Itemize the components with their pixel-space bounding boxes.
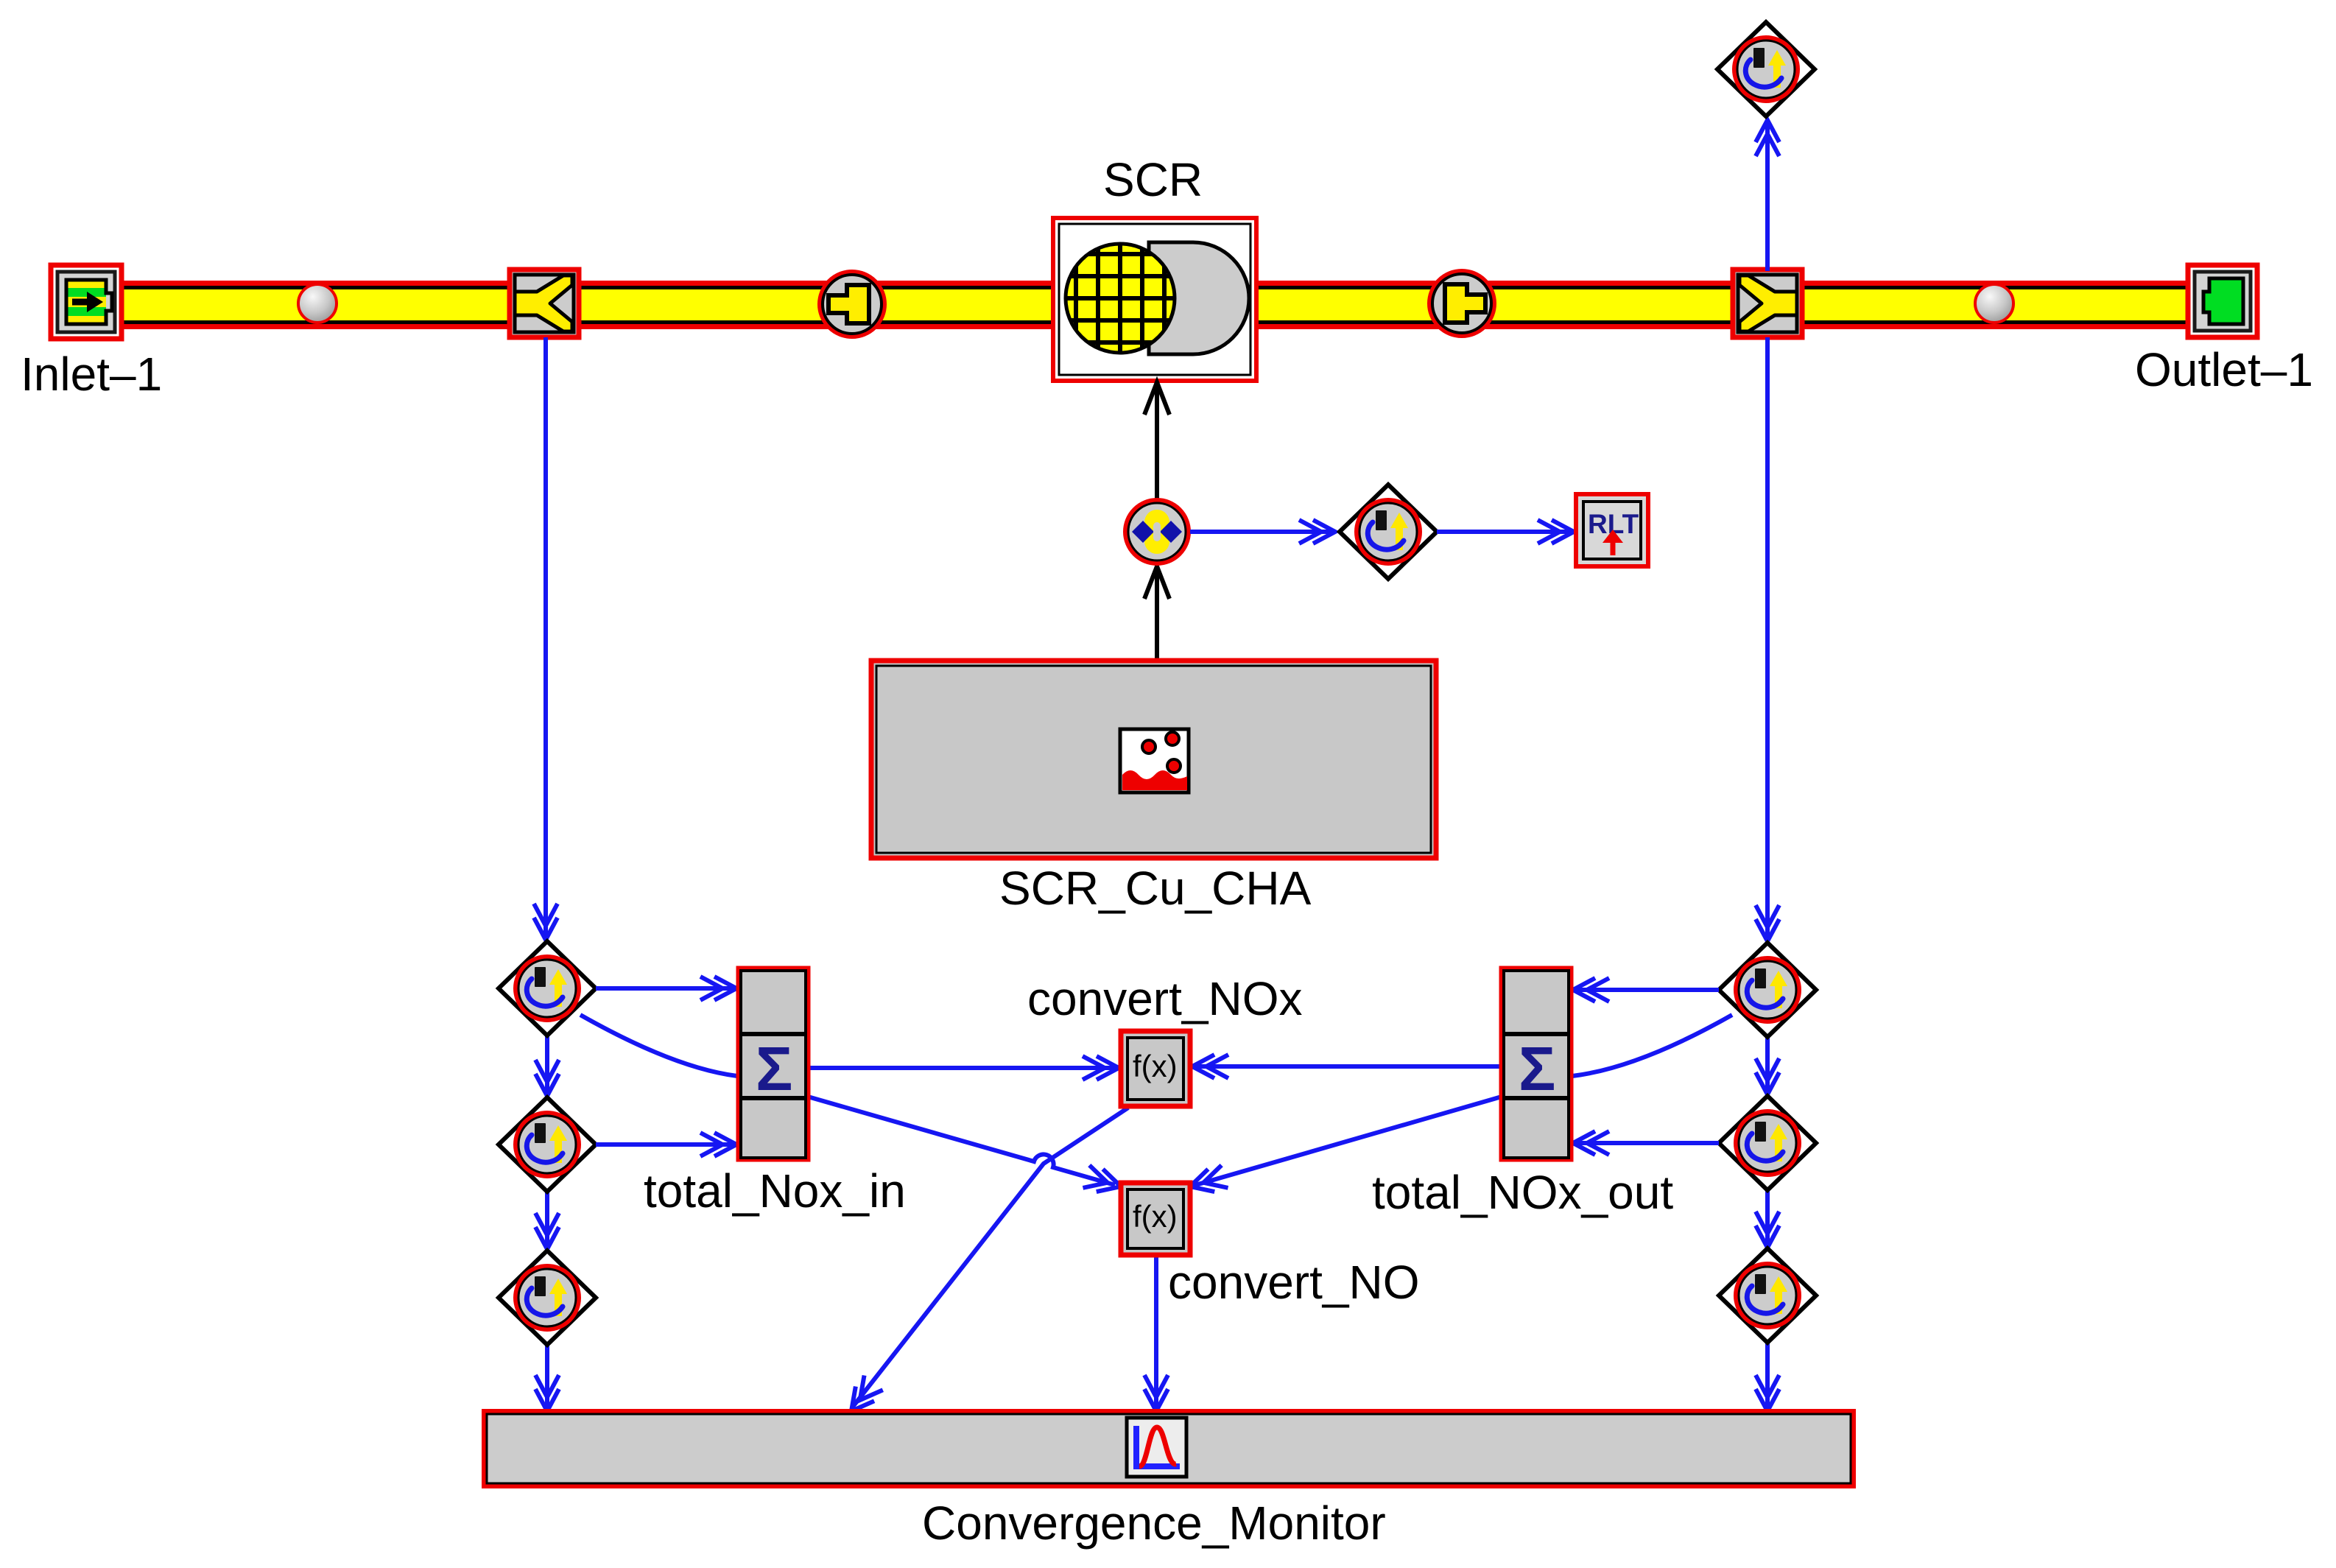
flowsplit left [510,270,579,337]
sphere connector right [1975,284,2013,323]
blue wire: mixer circle to transfer diamond [1190,530,1333,534]
svg-text:Inlet–1: Inlet–1 [21,348,162,401]
blue wire: diamond L1 to sum block top cell [596,986,733,991]
svg-text:total_Nox_in: total_Nox_in [644,1164,906,1217]
blue wire: convert_NO down to monitor [1154,1254,1158,1408]
svg-text:total_NOx_out: total_NOx_out [1372,1166,1673,1219]
svg-text:f(x): f(x) [1133,1049,1178,1083]
svg-text:Outlet–1: Outlet–1 [2135,343,2313,396]
svg-text:Convergence_Monitor: Convergence_Monitor [922,1497,1386,1550]
sum block total_Nox_in [739,968,808,1159]
svg-text:Σ: Σ [756,1034,792,1103]
transfer diamond R1 [1719,943,1816,1037]
beaker icon [1120,729,1189,792]
monitor plot icon [1127,1418,1186,1477]
inlet icon Inlet-1 [51,265,122,339]
orifice left [820,272,884,337]
blue wire: diamond R1 to diamond R2 [1765,1038,1770,1091]
blue wire: left sum to convert_NOx [808,1066,1116,1070]
svg-text:f(x): f(x) [1133,1199,1178,1234]
mixer circle icon (blue diamonds / yellow dots) [1125,500,1189,563]
Convergence_Monitor bar [484,1411,1854,1486]
blue wire: diamond L1 to diamond L2 [545,1036,549,1093]
blue wire: diamond L2 to diamond L3 [545,1192,549,1246]
blue wire: diamond R2 to right sum bottom cell [1576,1141,1719,1145]
SCR catalyst brick icon [1149,242,1249,354]
function block convert_NOx [1121,1031,1190,1106]
blue wire: diamond R1 to right sum top cell [1576,988,1719,992]
transfer diamond R3 [1719,1248,1816,1343]
blue wire: flowsplit left down to diamond L1 [543,337,548,937]
sum block total_NOx_out [1502,968,1571,1159]
blue wire: convert_NOx down-left to monitor [853,1108,1128,1407]
transfer diamond L1 [499,941,596,1036]
flowsplit right (mirrored) [1733,270,1802,337]
svg-text:SCR: SCR [1103,153,1203,206]
blue wire: diamond R3 to monitor [1765,1343,1770,1408]
blue wire: top column from flowsplit right up to top transfer diamond [1765,122,1770,271]
transfer diamond L3 [499,1251,596,1345]
blue wire: diamond L2 to sum block bottom cell [596,1142,733,1147]
svg-text:SCR_Cu_CHA: SCR_Cu_CHA [999,862,1312,915]
transfer diamond R2 [1719,1096,1816,1190]
svg-text:Σ: Σ [1519,1034,1555,1103]
SCR component box [1053,218,1256,381]
blue wire: diamond R1 to right sum middle cell (curved) [1572,1015,1732,1076]
blue wire: right sum to convert_NO (diagonal) [1193,1097,1502,1186]
function block convert_NO [1121,1183,1190,1255]
orifice right (mirrored) [1429,271,1494,336]
pipe (yellow flow channel Inlet-1 to Outlet-1) [86,281,2222,329]
transfer diamond top right [1717,22,1815,116]
svg-text:convert_NO: convert_NO [1168,1256,1419,1309]
transfer diamond (middle) [1340,485,1437,579]
blue wire: diamond R2 to diamond R3 [1765,1191,1770,1245]
outlet icon Outlet-1 [2188,265,2257,337]
blue wire: left sum to convert_NO (diagonal, hops over crossing wire) [808,1097,1115,1185]
blue wire: diamond L3 to monitor [545,1346,549,1408]
sphere connector left [298,284,337,323]
blue wire: diamond L1 to sum block middle cell (curved) [580,1015,737,1076]
RLT result block [1576,494,1648,566]
transfer diamond L2 [499,1097,596,1192]
SCR_Cu_CHA reaction box [871,661,1436,858]
blue wire: transfer diamond to RLT [1437,530,1572,534]
blue wire: flowsplit right down to diamond R1 [1765,337,1770,938]
black signal wire: SCR_Cu_CHA box up to mixer circle [1155,569,1159,661]
svg-text:convert_NOx: convert_NOx [1027,972,1302,1025]
blue wire: right sum to convert_NOx [1195,1064,1502,1069]
black signal wire: mixer circle up to SCR [1155,386,1159,499]
